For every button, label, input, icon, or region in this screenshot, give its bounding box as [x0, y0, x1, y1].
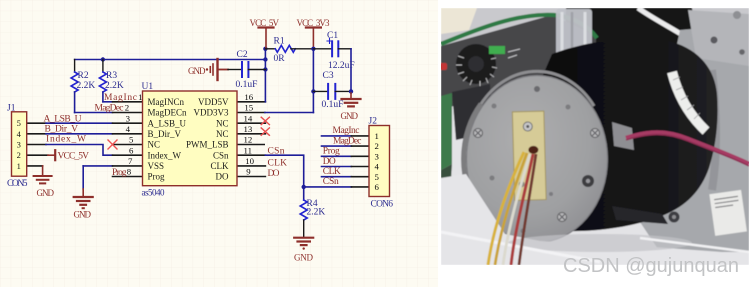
photo background / table — [441, 8, 749, 265]
pin numbers left — [125, 92, 143, 177]
U1 pin8 Prog stub — [113, 176, 143, 178]
node VCC_3V3 rail — [312, 49, 314, 113]
net labels maroon — [44, 93, 362, 187]
dark backdrop behind motor top — [564, 8, 700, 70]
IC U1 as5040 — [125, 82, 255, 198]
VCC_5V power port at J1.2 — [27, 154, 48, 156]
connector J1 — [7, 104, 28, 190]
U1 pin16 stub and VCC_5V node — [237, 101, 265, 103]
wire J1.1 to gnd — [27, 165, 43, 167]
connector J2 — [369, 117, 394, 210]
U1 pin14 NC stub — [237, 122, 265, 124]
table area light — [441, 174, 749, 265]
resistor R4 — [303, 187, 305, 200]
power port VCC_3V3 top — [306, 28, 321, 49]
ground left of C2 — [206, 59, 228, 80]
U1 pin11 CSn wire to J2.6 and R4 — [237, 154, 265, 156]
dark green below strip — [441, 164, 452, 186]
face screws — [474, 86, 600, 234]
node junction R3 top — [101, 57, 105, 61]
capacitor C3 — [313, 90, 328, 92]
upper background band — [441, 8, 749, 103]
wire VSS U1.7 to gnd — [83, 165, 112, 167]
ground at J1.1 — [34, 166, 52, 184]
ground at C1/C3 — [342, 93, 361, 106]
multimeter body — [441, 15, 596, 108]
pink wire — [626, 133, 749, 165]
power port VCC_5V top — [259, 28, 274, 49]
transparent cup — [556, 9, 592, 59]
wire B_Dir_V J1.4 to U1.4 — [27, 133, 46, 135]
motor body black — [528, 38, 718, 231]
green side strip — [441, 93, 452, 170]
U1 pin10 CLK stub — [237, 165, 265, 167]
ground at VSS — [74, 189, 93, 208]
wire MagDec to U1 pin2 — [75, 112, 113, 114]
wire A_LSB_U J1.5 to U1.3 — [27, 122, 46, 124]
red button — [440, 63, 447, 70]
white cable top — [638, 8, 700, 46]
shadow wedge under motor — [612, 206, 668, 224]
U1 pin15 to VCC_3V3 rail — [237, 112, 265, 114]
U1 pin13 NC stub — [237, 133, 265, 135]
motor face — [467, 76, 608, 243]
green holster edge — [441, 15, 597, 44]
schematic canvas background — [0, 0, 438, 287]
U1 pin12 stub — [237, 144, 264, 146]
designators navy — [77, 31, 355, 218]
right machine gearbox — [632, 24, 749, 252]
cream object top left — [441, 8, 477, 34]
ground at R4 — [294, 238, 313, 250]
barcode label right — [709, 190, 747, 236]
wire Index_W J1.3 jog to U1.6 — [27, 144, 46, 146]
resistor R3 — [99, 60, 106, 102]
green label — [489, 46, 505, 54]
capacitor C1 — [313, 48, 332, 50]
white specks on meter — [508, 49, 520, 58]
wire MagInc to U1 pin1 — [103, 101, 113, 103]
white curved sticker — [672, 72, 706, 131]
top-right bracket — [688, 10, 749, 66]
capacitor C2 with gnd — [206, 59, 266, 80]
J2 pin wires — [322, 136, 370, 177]
gray tab on motor — [612, 122, 634, 150]
table shadow under motor — [508, 234, 692, 252]
U1 pin9 DO stub — [237, 176, 265, 178]
resistor R2 — [71, 60, 78, 113]
wire top rail from R2/R3 to VCC_5V node — [75, 59, 266, 61]
PCB — [512, 111, 546, 200]
table light streaks — [441, 232, 600, 262]
U1 pin5 NC stub — [113, 144, 143, 146]
dial knob — [456, 44, 496, 84]
wire C1 down to gnd — [350, 49, 352, 93]
wire bundle from PCB — [488, 152, 524, 265]
pin numbers right — [244, 92, 255, 177]
no-connect X pin5 — [108, 140, 117, 149]
multimeter lower dark area — [452, 84, 492, 140]
svg-text:CSDN @gujunquan: CSDN @gujunquan — [563, 255, 739, 277]
resistor R1 — [265, 48, 275, 50]
